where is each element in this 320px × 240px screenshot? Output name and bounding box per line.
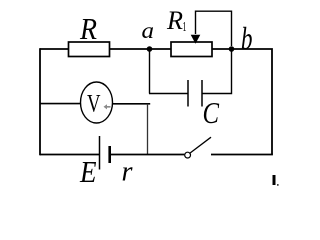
wire: voltmeter right to drop-down — [113, 103, 151, 105]
capacitor branch: node a down — [149, 49, 151, 94]
svg-text:b: b — [241, 21, 253, 56]
switch lever — [190, 137, 211, 153]
bottom wire: left corner to battery — [40, 154, 100, 156]
wire: resistor R to node a — [110, 48, 150, 50]
svg-text:R: R — [166, 5, 183, 35]
text caret artifact bottom right — [273, 175, 276, 185]
svg-text:E: E — [79, 154, 96, 187]
capacitor C right plate — [201, 80, 203, 107]
wire top-left: left edge to resistor R — [40, 48, 69, 50]
svg-text:1: 1 — [183, 20, 187, 35]
wire: switch to bottom-right corner — [211, 154, 273, 156]
svg-text:R: R — [79, 11, 97, 46]
wire: node a to rheostat R1 — [150, 48, 172, 50]
svg-text:C: C — [203, 96, 220, 130]
node b — [229, 46, 235, 52]
svg-text:V: V — [87, 91, 101, 118]
rheostat wiper arrow — [196, 11, 232, 46]
wire: node b to top-right corner and down right edge — [232, 49, 273, 155]
small gray cursor arrow inside voltmeter — [104, 104, 111, 109]
capacitor C left plate — [187, 80, 189, 107]
wire: battery to switch — [111, 154, 185, 156]
svg-text:r: r — [122, 156, 134, 188]
switch pivot circle — [185, 152, 191, 158]
wire: capacitor right plate to node b — [202, 49, 232, 94]
voltmeter V — [81, 82, 113, 123]
rheostat R1 body — [171, 42, 212, 57]
svg-text:a: a — [142, 18, 155, 43]
left edge wire — [39, 48, 41, 155]
wire: rheostat R1 to node b — [212, 48, 232, 50]
battery long plate — [99, 136, 101, 170]
voltmeter branch: left edge to voltmeter — [40, 103, 81, 105]
battery short plate — [108, 146, 111, 163]
node a — [147, 46, 153, 52]
resistor R — [69, 42, 110, 57]
wire to capacitor left plate — [149, 93, 188, 95]
